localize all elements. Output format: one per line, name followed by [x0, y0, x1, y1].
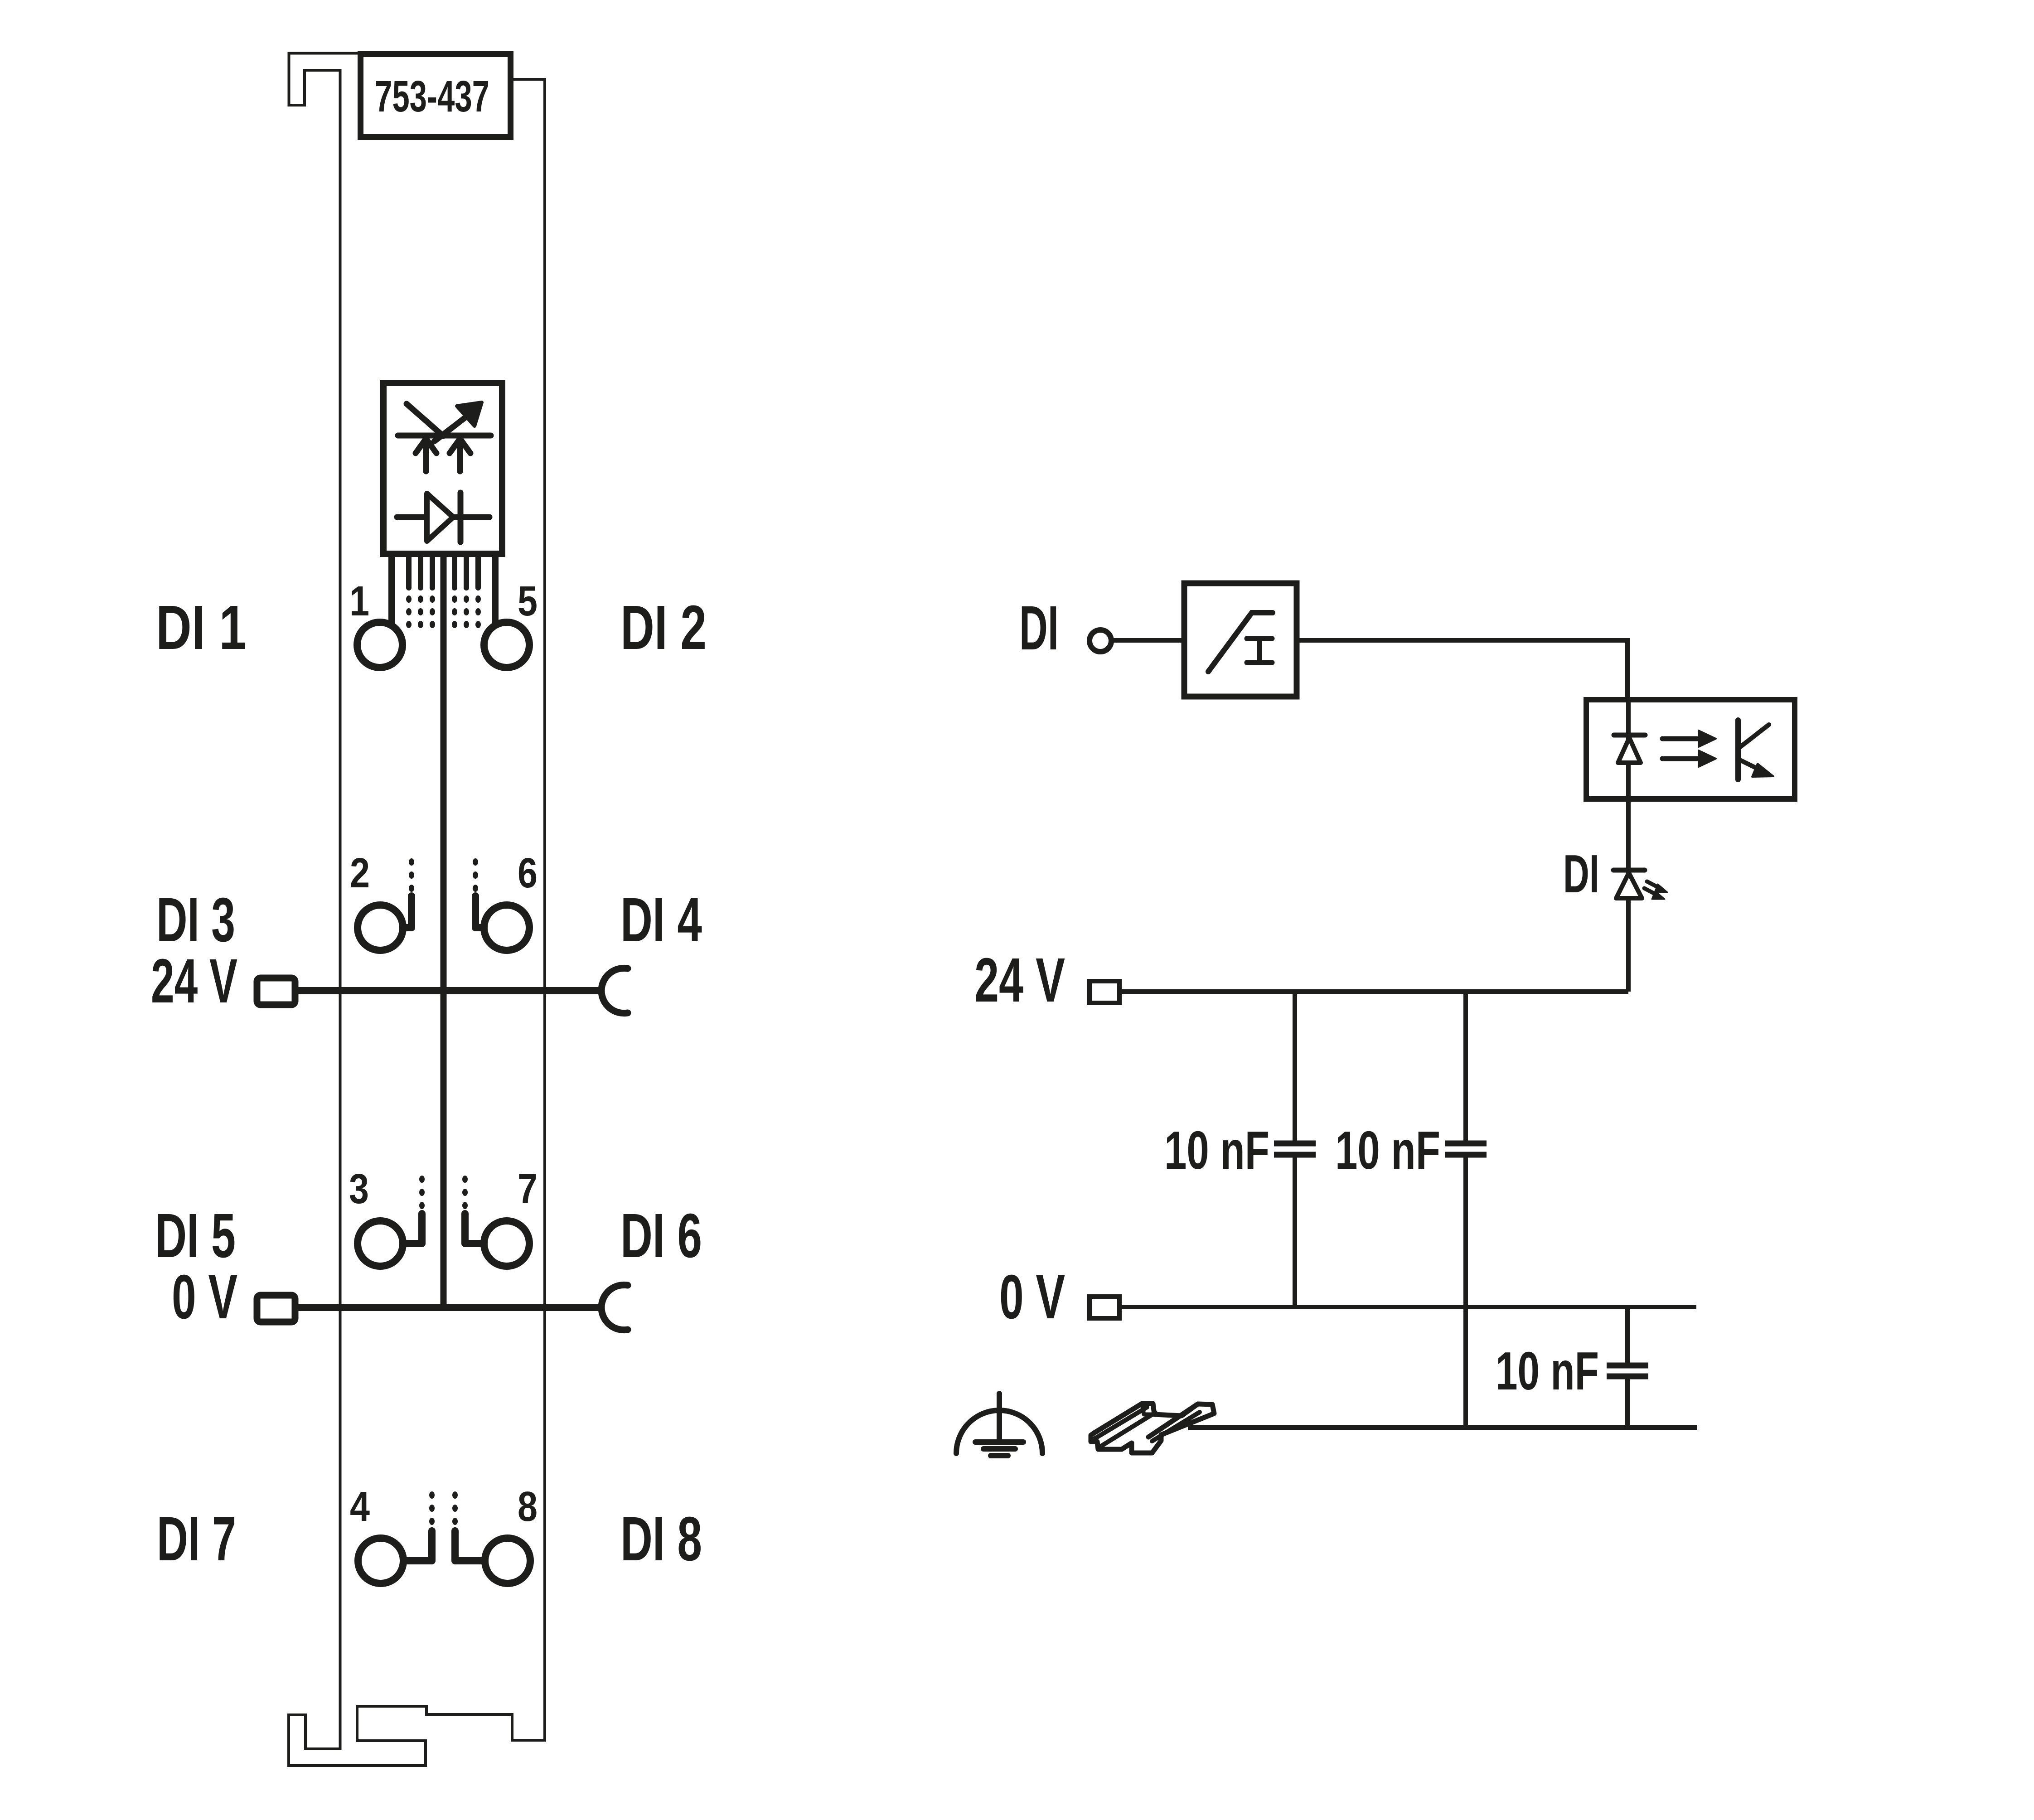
0V connector lug: [257, 1295, 295, 1322]
opto-isolator block U1: [383, 383, 502, 554]
terminal circle 1: [357, 622, 402, 668]
svg-text:DI 5: DI 5: [155, 1201, 236, 1271]
dots terminal 6: [473, 858, 478, 892]
svg-text:DI 7: DI 7: [157, 1504, 236, 1574]
ground symbol: [956, 1394, 1042, 1456]
svg-text:7: 7: [518, 1165, 538, 1212]
module 753-437 outline: [289, 53, 545, 1766]
svg-text:6: 6: [518, 849, 538, 896]
terminal circle 8: [485, 1538, 530, 1583]
elbow wire terminal 3: [404, 1214, 422, 1244]
0V rail right: [1119, 1305, 1696, 1309]
dots terminal 8: [452, 1491, 458, 1525]
svg-text:DI: DI: [1019, 593, 1059, 663]
LED emission arrows: [1644, 881, 1667, 899]
DIN rail icon: [1091, 1404, 1214, 1453]
svg-text:10 nF: 10 nF: [1164, 1120, 1269, 1181]
24V connector lug: [257, 978, 295, 1005]
svg-text:24 V: 24 V: [974, 945, 1065, 1015]
svg-text:DI 2: DI 2: [620, 593, 707, 663]
terminal circle 5: [484, 622, 529, 668]
functional earth rail: [1188, 1425, 1697, 1430]
capacitor C3 lower wire: [1625, 1379, 1630, 1428]
DI input terminal circle: [1090, 630, 1111, 652]
optocoupler box: [1586, 700, 1795, 799]
elbow wire terminal 2: [404, 896, 412, 928]
capacitor C2 upper wire: [1463, 992, 1468, 1141]
capacitor C2 lower wire: [1463, 1157, 1468, 1428]
svg-text:10 nF: 10 nF: [1496, 1341, 1599, 1401]
terminal circle 3: [358, 1221, 403, 1266]
elbow wire terminal 7: [465, 1214, 483, 1244]
24V connector lug right: [1090, 981, 1119, 1003]
wire opto to terminal 1: [388, 557, 395, 624]
wire DI input to filter: [1111, 638, 1184, 643]
svg-text:10 nF: 10 nF: [1335, 1120, 1440, 1181]
0V feed rail (left module): [295, 1304, 604, 1311]
optocoupler light arrows: [1662, 731, 1716, 767]
svg-text:753-437: 753-437: [375, 72, 489, 121]
status LED DI: [1613, 870, 1645, 898]
dots terminal 3: [419, 1176, 425, 1209]
svg-text:24 V: 24 V: [151, 946, 237, 1016]
ribbon dotted continuation: [406, 595, 481, 628]
svg-text:1: 1: [349, 577, 369, 624]
elbow wire terminal 8: [455, 1531, 484, 1561]
wire optocoupler to LED DI: [1626, 799, 1631, 992]
terminal circle 7: [484, 1221, 529, 1266]
phototransistor: [1738, 720, 1769, 779]
elbow wire terminal 4: [404, 1531, 432, 1561]
svg-text:DI 4: DI 4: [620, 885, 702, 955]
internal bus wire (center): [441, 557, 447, 1307]
filter ramp symbol: [1208, 613, 1273, 672]
0V connector lug right: [1090, 1297, 1119, 1318]
svg-text:2: 2: [350, 849, 370, 896]
ribbon leads from opto block: [409, 557, 478, 588]
dots terminal 7: [462, 1176, 468, 1209]
capacitor C1 plates: [1274, 1143, 1316, 1155]
capacitor C1 upper wire: [1293, 992, 1297, 1141]
terminal circle 4: [358, 1538, 403, 1583]
svg-text:DI 3: DI 3: [156, 885, 235, 955]
svg-text:3: 3: [349, 1165, 369, 1212]
svg-text:DI: DI: [1563, 844, 1599, 904]
label box 753-437: [361, 54, 511, 137]
0V clamp connector C: [601, 1285, 628, 1330]
capacitor C1 lower wire: [1293, 1157, 1297, 1307]
dots terminal 2: [409, 858, 414, 892]
capacitor C3 upper wire: [1625, 1307, 1630, 1363]
svg-text:0 V: 0 V: [172, 1262, 237, 1332]
elbow wire terminal 6: [475, 896, 483, 928]
filter I symbol: [1247, 639, 1272, 663]
capacitor C3 plates: [1607, 1365, 1648, 1376]
svg-text:8: 8: [518, 1483, 538, 1530]
input filter box: [1184, 583, 1297, 697]
svg-text:5: 5: [518, 577, 538, 624]
svg-text:DI 1: DI 1: [156, 593, 247, 663]
svg-text:DI 6: DI 6: [620, 1201, 702, 1271]
capacitor C2 plates: [1445, 1143, 1487, 1155]
wire opto to terminal 5: [492, 557, 499, 624]
dots terminal 4: [429, 1491, 435, 1525]
wire through optocoupler LED: [1626, 700, 1631, 799]
24V clamp connector C: [601, 968, 628, 1013]
svg-text:DI 8: DI 8: [620, 1504, 702, 1574]
svg-text:0 V: 0 V: [999, 1262, 1065, 1332]
optocoupler LED: [1614, 735, 1645, 763]
wire filter to optocoupler: [1297, 640, 1627, 700]
svg-text:4: 4: [350, 1483, 370, 1530]
terminal circle 2: [358, 905, 403, 950]
24V rail right: [1119, 989, 1628, 994]
terminal circle 6: [484, 905, 529, 950]
24V feed rail (left module): [295, 987, 604, 994]
